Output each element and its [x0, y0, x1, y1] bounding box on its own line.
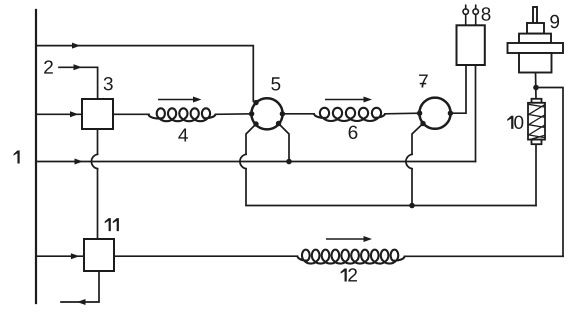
label 7 [419, 74, 428, 87]
flow arrow above coil 12 [326, 238, 367, 240]
label 12 [341, 268, 347, 281]
arrow top branch [72, 43, 81, 49]
wire pump 5 lower-left drop [246, 124, 256, 154]
arrow into box 3 [70, 111, 79, 117]
node pump 7 left [417, 111, 422, 116]
label 10 [507, 116, 513, 129]
node pump 7 lower-left [420, 121, 425, 126]
wire injector 9 to junction [535, 73, 538, 99]
pump 7 [419, 98, 450, 129]
wire input 2 [59, 67, 98, 99]
junction on line A [286, 159, 292, 165]
box 3 [82, 99, 113, 129]
wire box 11 bottom return [61, 271, 99, 302]
label 5 [271, 77, 280, 90]
wire top branch to pump 5 [36, 46, 253, 101]
wire line B right part [412, 205, 536, 207]
injector 9 [508, 7, 564, 73]
wire box 11 to coil 12 [114, 255, 298, 257]
label 9 [550, 15, 559, 28]
node pump 5 upper-left [253, 100, 258, 105]
junction on line B [409, 203, 415, 209]
wire coil 12 to right riser [405, 255, 564, 257]
sensor 8 pins [463, 5, 478, 26]
coil 12 [298, 250, 405, 264]
label 4 [178, 128, 188, 141]
wire right riser from junction [536, 88, 563, 257]
wire drop to line B [246, 169, 412, 206]
arrow into box 11 [71, 253, 80, 259]
node pump 5 right [280, 111, 285, 116]
heater 10 winding [529, 104, 545, 139]
wire pump 5 to coil 6 [283, 113, 315, 115]
label 8 [482, 7, 491, 20]
wire coil 6 to pump 7 [385, 112, 420, 115]
node pump 5 lower-left [253, 121, 258, 126]
coil 6 [314, 108, 385, 121]
node pump 5 lower-right [276, 121, 281, 126]
wire junction to heater 10 [535, 144, 537, 205]
junction below injector 9 [533, 85, 539, 91]
wire drop to line B junction [411, 169, 413, 206]
pump 5 [251, 98, 282, 129]
wire pump 7 lower-left drop [412, 124, 423, 155]
label 11 [105, 218, 111, 231]
flow arrow above coil 6 [325, 99, 367, 101]
flow arrow above coil 4 [158, 99, 197, 101]
hop over line A at x=412 [406, 154, 412, 168]
arrow bottom return [77, 299, 86, 305]
hop over line A at x=97.5 [91, 154, 97, 168]
wire down to box 11 [97, 169, 99, 239]
wire line A riser to box 8 [475, 65, 477, 162]
bus line 1 [35, 10, 37, 303]
arrow input 2 [74, 64, 83, 70]
label 2 [44, 60, 53, 73]
wire box 3 down [97, 129, 99, 154]
wire line A [36, 161, 476, 163]
box 11 [84, 239, 114, 271]
wire coil 4 to pump 5 [216, 113, 253, 116]
wire box 3 to coil 4 [113, 113, 149, 115]
wire pump 5 lower-right drop [279, 124, 290, 162]
node pump 5 left [249, 111, 254, 116]
wire pump 7 right up to box 8 [451, 65, 467, 113]
hop over line A at x=246 [240, 154, 246, 168]
box 8 [457, 25, 485, 65]
heater 10 [528, 99, 545, 144]
wire bus to box 3 [36, 113, 82, 115]
label 6 [349, 126, 358, 139]
label 3 [104, 77, 113, 90]
coil 4 [149, 108, 216, 121]
label 1 [14, 150, 20, 163]
wire bus to box 11 [36, 255, 84, 257]
arrow line A [75, 159, 84, 165]
node pump 7 right [448, 111, 453, 116]
